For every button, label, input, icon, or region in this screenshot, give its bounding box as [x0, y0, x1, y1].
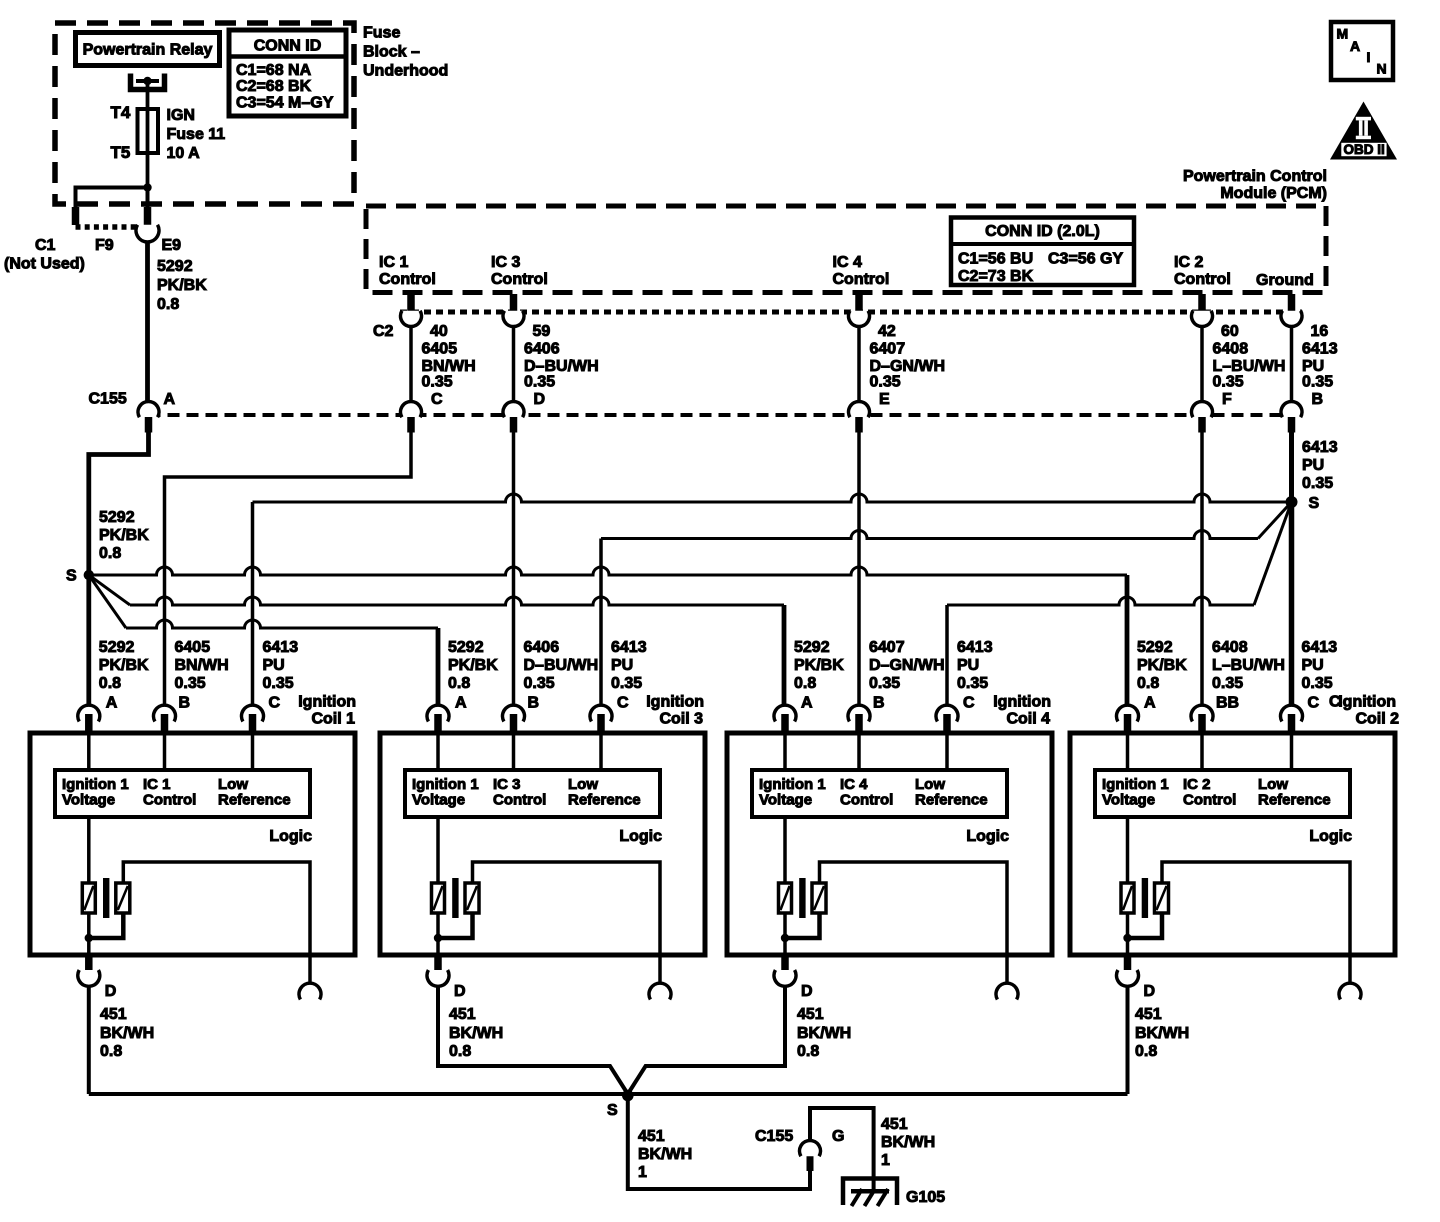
coil4 pin B male bar	[855, 714, 863, 735]
svg-text:D: D	[454, 983, 466, 1000]
svg-text:(Not Used): (Not Used)	[4, 256, 85, 273]
svg-text:451: 451	[638, 1128, 665, 1145]
svg-text:L–BU/WH: L–BU/WH	[1212, 657, 1285, 674]
connector C155 dashed line	[149, 413, 1306, 417]
svg-text:Control: Control	[833, 271, 890, 288]
splice S right diagonal to coil3 C bus	[1258, 502, 1292, 539]
svg-text:IGN: IGN	[167, 107, 195, 124]
wire 451 splice to C155 G	[628, 1096, 810, 1190]
coil4 secondary winding	[812, 883, 826, 913]
svg-text:D: D	[801, 983, 813, 1000]
ground bus 451 horizontal	[89, 1092, 1128, 1096]
svg-text:IC 4: IC 4	[833, 254, 862, 271]
coil1 label Ignition 1 Voltage	[62, 776, 129, 809]
wire 6413 splice to coil2 C	[1289, 502, 1295, 705]
svg-text:Ignition: Ignition	[298, 694, 356, 711]
coil1 pin D male bar	[85, 953, 93, 971]
splice S right dot	[1286, 496, 1298, 508]
svg-text:6413: 6413	[1302, 341, 1338, 358]
svg-text:I: I	[1367, 49, 1371, 65]
coil3 wire voltage to primary	[436, 817, 440, 884]
coil2 internal wire B	[1200, 735, 1204, 770]
svg-text:0.35: 0.35	[1302, 475, 1333, 492]
svg-text:6413: 6413	[611, 639, 647, 656]
wire inside fuse	[146, 110, 150, 188]
ignition coil 4 box	[727, 733, 1052, 955]
svg-text:Low: Low	[218, 776, 248, 793]
svg-text:Coil 4: Coil 4	[1006, 711, 1050, 728]
svg-text:CONN ID (2.0L): CONN ID (2.0L)	[985, 223, 1100, 240]
svg-text:Ignition: Ignition	[993, 694, 1051, 711]
svg-text:0.8: 0.8	[100, 1043, 122, 1060]
svg-text:G: G	[832, 1128, 844, 1145]
svg-text:F9: F9	[95, 237, 114, 254]
svg-text:16: 16	[1311, 323, 1329, 340]
coil1 pin A terminal arc	[78, 705, 100, 721]
coil2 secondary stub terminal arc	[1339, 983, 1361, 999]
svg-text:Coil 1: Coil 1	[311, 711, 355, 728]
C155 terminal arc F	[1192, 401, 1213, 417]
labels pin 42 wire 6407 D&#8211;GN/WH 0.35 pin E	[870, 323, 946, 408]
svg-text:1: 1	[881, 1152, 890, 1169]
coil3 label Ignition 1 Voltage	[412, 776, 479, 809]
C155 terminal arc E	[848, 401, 869, 417]
svg-text:A: A	[801, 695, 813, 712]
svg-text:6405: 6405	[175, 639, 211, 656]
ignition coil 3 box	[380, 733, 705, 955]
ground G105 bracket	[843, 1179, 897, 1206]
coil1 primary slash	[84, 886, 93, 910]
coil3 label Low Reference	[568, 776, 641, 809]
coil4 internal wire B	[857, 735, 861, 770]
svg-text:B: B	[1312, 391, 1324, 408]
C2 terminal arc IC3	[503, 311, 524, 327]
svg-text:5292: 5292	[794, 639, 830, 656]
svg-text:0.8: 0.8	[1135, 1043, 1157, 1060]
relay contact crossbar	[136, 79, 159, 83]
C155 male bar F	[1198, 417, 1206, 433]
label 451 BK/WH 1 (left)	[638, 1128, 692, 1181]
C155 male bar D	[510, 417, 518, 433]
coil4 wire primary to junction	[783, 913, 787, 938]
svg-text:PU: PU	[1302, 457, 1324, 474]
svg-text:BK/WH: BK/WH	[449, 1025, 503, 1042]
svg-text:A: A	[1350, 38, 1360, 54]
labels pin 16 wire 6413 PU 0.35 pin B	[1302, 323, 1338, 408]
svg-text:0.8: 0.8	[794, 675, 816, 692]
svg-text:Ignition: Ignition	[1338, 694, 1396, 711]
wire 6408 straight (C155 F to coil2 BB)	[1200, 433, 1204, 706]
svg-text:Reference: Reference	[218, 792, 291, 809]
splice S left dot	[84, 570, 94, 580]
svg-text:BB: BB	[1216, 695, 1239, 712]
svg-text:Control: Control	[143, 792, 196, 809]
label IC 2 Control	[1174, 254, 1231, 288]
ignition coil 1 box	[30, 733, 355, 955]
terminal arc E9	[136, 225, 159, 242]
coil4 label Low Reference	[915, 776, 988, 809]
svg-text:BK/WH: BK/WH	[1135, 1025, 1189, 1042]
svg-text:0.35: 0.35	[175, 675, 206, 692]
wire 5292 splice to coil1 A	[86, 575, 91, 705]
connector C1 dotted line	[76, 224, 141, 230]
svg-text:S: S	[1309, 495, 1320, 512]
splice S bottom dot	[622, 1090, 634, 1102]
svg-text:Module (PCM): Module (PCM)	[1220, 185, 1327, 202]
svg-text:Control: Control	[840, 792, 893, 809]
wire 451 coil2 D down	[1126, 986, 1130, 1095]
labels 6413 PU 0.35 pin C (coil at 1127)	[1302, 639, 1338, 712]
coil4 junction dot	[781, 934, 789, 942]
coil2 label Ignition 1 Voltage	[1102, 776, 1169, 809]
svg-text:0.35: 0.35	[1212, 675, 1243, 692]
OBD II label box	[1341, 143, 1386, 156]
svg-text:Control: Control	[493, 792, 546, 809]
coil4 label IC 4 Control	[840, 776, 893, 809]
labels pin 40 wire 6405 BN/WH 0.35 pin C	[422, 323, 476, 408]
coil3 junction dot	[434, 934, 442, 942]
svg-text:PK/BK: PK/BK	[99, 657, 149, 674]
wire relay to fuse	[146, 81, 150, 110]
svg-text:C: C	[963, 695, 975, 712]
svg-text:Reference: Reference	[1258, 792, 1331, 809]
C155 male bar E	[855, 417, 863, 433]
coil1 wire primary to junction	[87, 913, 91, 938]
title Ignition Coil 3	[646, 694, 704, 728]
C155 terminal arc C	[401, 401, 422, 417]
wire right branch down	[146, 188, 150, 209]
coil4 secondary stub terminal arc	[996, 983, 1018, 999]
svg-text:PU: PU	[263, 657, 285, 674]
coil1 pin C male bar	[249, 714, 257, 735]
svg-text:A: A	[164, 391, 176, 408]
coil2 pin A terminal arc	[1117, 705, 1139, 721]
svg-text:D–BU/WH: D–BU/WH	[524, 358, 599, 375]
svg-text:D–GN/WH: D–GN/WH	[870, 358, 946, 375]
svg-text:C2=73 BK: C2=73 BK	[958, 268, 1034, 285]
coil3 pin D male bar	[434, 953, 442, 971]
coil2 wire primary to junction	[1126, 913, 1130, 938]
svg-text:59: 59	[533, 323, 551, 340]
svg-text:C155: C155	[755, 1128, 793, 1145]
label 451 BK/WH 0.8 (coil4)	[797, 1006, 851, 1060]
coil2 wire voltage to primary	[1126, 817, 1130, 884]
svg-text:C1=56 BU: C1=56 BU	[958, 251, 1033, 268]
svg-text:Logic: Logic	[619, 828, 662, 845]
svg-text:Control: Control	[1183, 792, 1236, 809]
svg-text:451: 451	[797, 1006, 824, 1023]
svg-text:BK/WH: BK/WH	[881, 1134, 935, 1151]
PCM pin bar IC2	[1198, 294, 1206, 311]
svg-text:D–GN/WH: D–GN/WH	[869, 657, 945, 674]
svg-text:6413: 6413	[263, 639, 299, 656]
splice S right diagonal to coil4 C bus	[1254, 502, 1292, 605]
coil1 wire junction to pin D	[87, 938, 91, 954]
svg-text:6406: 6406	[524, 639, 560, 656]
svg-text:Logic: Logic	[966, 828, 1009, 845]
svg-text:C155: C155	[89, 391, 127, 408]
svg-text:0.8: 0.8	[99, 675, 121, 692]
svg-text:C1=68 NA: C1=68 NA	[236, 62, 312, 79]
coil3 primary slash	[434, 886, 443, 910]
wire 6413 bus to coil4 C	[945, 605, 949, 705]
svg-text:C: C	[617, 695, 629, 712]
svg-text:BN/WH: BN/WH	[422, 358, 476, 375]
ground G105 hatch 1	[852, 1189, 863, 1206]
coil2 pin C terminal arc	[1281, 705, 1303, 721]
coil1 pin B terminal arc	[154, 705, 176, 721]
coil1 secondary stub wire	[308, 955, 312, 984]
svg-text:B: B	[873, 695, 885, 712]
svg-text:D: D	[1144, 983, 1156, 1000]
svg-text:0.35: 0.35	[957, 675, 988, 692]
C155 male bar A	[145, 417, 153, 433]
PCM pin bar IC1	[407, 294, 415, 311]
label 5292 PK/BK 0.8 (E9)	[157, 258, 207, 313]
coil4 wire junction to pin D	[783, 938, 787, 954]
title Ignition Coil 4	[993, 694, 1051, 728]
label 451 BK/WH 0.8 (coil3)	[449, 1006, 503, 1060]
coil2 secondary slash	[1157, 886, 1167, 910]
coil2 primary slash	[1123, 886, 1132, 910]
label 6413 PU 0.35 (above right splice)	[1302, 439, 1338, 492]
bus 5292 to coil4 A	[130, 597, 784, 605]
svg-text:PU: PU	[1302, 657, 1324, 674]
coil1 secondary stub terminal arc	[299, 983, 321, 999]
bus 5292 to coil3 A	[126, 620, 438, 628]
svg-text:0.35: 0.35	[870, 374, 901, 391]
svg-text:Powertrain Relay: Powertrain Relay	[83, 42, 213, 59]
coil1 label IC 1 Control	[143, 776, 196, 809]
title Ignition Coil 1	[298, 694, 356, 728]
ground G105 bar	[851, 1189, 889, 1194]
coil3 pin D terminal arc	[427, 970, 449, 986]
coil1 secondary slash	[118, 886, 128, 910]
wire left branch down	[74, 186, 78, 209]
labels 6413 PU 0.35 pin C (coil at 438)	[611, 639, 647, 712]
label 451 BK/WH 0.8 (coil2)	[1135, 1006, 1189, 1060]
labels 6413 PU 0.35 pin C (coil at 88.8)	[263, 639, 299, 712]
coil3 internal wire A	[436, 735, 440, 770]
coil4 terminal function box	[752, 770, 1007, 817]
svg-text:IC 2: IC 2	[1174, 254, 1203, 271]
labels 5292 PK/BK 0.8 pin A (coil at 438)	[448, 639, 498, 712]
svg-text:Low: Low	[568, 776, 598, 793]
coil2 label Low Reference	[1258, 776, 1331, 809]
wire A jog (C155 A to left column)	[89, 433, 149, 576]
svg-text:PU: PU	[1302, 358, 1324, 375]
wire 5292 bus to coil2 A	[1125, 575, 1130, 705]
svg-text:Powertrain Control: Powertrain Control	[1183, 168, 1327, 185]
svg-text:Ignition 1: Ignition 1	[412, 776, 479, 793]
coil2 pin A male bar	[1124, 714, 1132, 735]
coil4 pin D male bar	[781, 953, 789, 971]
title Powertrain Control Module (PCM)	[1183, 168, 1327, 202]
wire 5292 bus to coil3 A	[436, 628, 441, 705]
coil1 core bar	[103, 878, 109, 918]
svg-text:0.35: 0.35	[524, 675, 555, 692]
coil2 wire junction to pin D	[1126, 938, 1130, 954]
coil3 secondary top jog	[473, 862, 661, 953]
connector C2 dotted line	[400, 310, 1302, 315]
svg-text:G105: G105	[906, 1189, 945, 1206]
C155 G terminal arc	[799, 1140, 820, 1156]
fuse IGN Fuse 11 rectangle	[138, 109, 159, 153]
OBD II pillar symbol	[1356, 117, 1371, 139]
svg-text:S: S	[607, 1102, 618, 1119]
coil1 wire voltage to primary	[87, 817, 91, 884]
svg-text:Coil 3: Coil 3	[659, 711, 703, 728]
conn id (2.0L) separator	[951, 242, 1134, 246]
coil3 jog junction to secondary	[438, 913, 473, 938]
conn id table (fuse block) box	[229, 30, 346, 116]
C2 terminal arc IC1	[401, 311, 422, 327]
junction dot in fuse block	[143, 183, 151, 191]
svg-text:5292: 5292	[448, 639, 484, 656]
svg-text:6408: 6408	[1212, 639, 1248, 656]
wire 451 C155 G to ground	[810, 1108, 874, 1191]
svg-text:6406: 6406	[524, 341, 560, 358]
svg-text:Fuse: Fuse	[363, 25, 400, 42]
svg-text:6413: 6413	[1302, 639, 1338, 656]
C155 terminal arc D	[503, 401, 524, 417]
coil1 pin B male bar	[161, 714, 169, 735]
powertrain relay box	[76, 33, 220, 66]
title Fuse Block - Underhood	[363, 25, 448, 80]
svg-text:0.8: 0.8	[157, 296, 179, 313]
coil2 primary winding	[1121, 883, 1134, 913]
svg-text:Low: Low	[1258, 776, 1288, 793]
svg-text:Underhood: Underhood	[363, 63, 448, 80]
coil3 label IC 3 Control	[493, 776, 546, 809]
svg-text:PK/BK: PK/BK	[99, 527, 149, 544]
bus 6413 to coil4 C	[947, 597, 1254, 605]
coil2 pin B terminal arc	[1191, 705, 1213, 721]
PCM dashed box	[366, 206, 1326, 293]
svg-text:Logic: Logic	[1309, 828, 1352, 845]
svg-text:6407: 6407	[869, 639, 905, 656]
coil4 label Ignition 1 Voltage	[759, 776, 826, 809]
coil4 jog junction to secondary	[785, 913, 820, 938]
svg-text:BN/WH: BN/WH	[175, 657, 229, 674]
svg-text:Ignition 1: Ignition 1	[1102, 776, 1169, 793]
svg-text:0.8: 0.8	[99, 545, 121, 562]
svg-text:451: 451	[1135, 1006, 1162, 1023]
coil2 jog junction to secondary	[1128, 913, 1163, 938]
wire IC1 C2 to C155	[409, 325, 413, 403]
svg-text:451: 451	[449, 1006, 476, 1023]
ground G105 hatch 3	[878, 1189, 889, 1206]
coil4 primary slash	[781, 886, 790, 910]
coil3 pin B male bar	[510, 714, 518, 735]
svg-text:451: 451	[100, 1006, 127, 1023]
coil4 secondary top jog	[820, 862, 1008, 953]
svg-text:Voltage: Voltage	[412, 792, 465, 809]
labels 5292 PK/BK 0.8 pin A (coil at 784)	[794, 639, 844, 712]
svg-text:E9: E9	[162, 237, 182, 254]
coil1 internal wire A	[87, 735, 91, 770]
svg-text:A: A	[106, 695, 118, 712]
svg-text:Ground: Ground	[1256, 272, 1314, 289]
label 451 BK/WH 1 (right)	[881, 1116, 935, 1169]
coil2 secondary stub wire	[1348, 955, 1352, 984]
svg-text:6413: 6413	[957, 639, 993, 656]
wire 6413 bus to coil3 C	[599, 539, 603, 706]
svg-text:IC 1: IC 1	[379, 254, 408, 271]
coil4 internal wire A	[783, 735, 787, 770]
coil1 junction dot	[85, 934, 93, 942]
coil1 terminal function box	[55, 770, 310, 817]
coil3 secondary stub terminal arc	[649, 983, 671, 999]
svg-text:CONN ID: CONN ID	[254, 38, 322, 55]
C155 G male bar	[807, 1153, 814, 1171]
label IC 3 Control	[491, 254, 548, 288]
coil2 junction dot	[1123, 934, 1131, 942]
coil3 pin C male bar	[597, 714, 605, 735]
svg-text:0.8: 0.8	[449, 1043, 471, 1060]
coil1 internal wire B	[163, 735, 167, 770]
wire 5292 bus to coil4 A	[782, 605, 787, 705]
coil1 pin A male bar	[85, 714, 93, 735]
svg-text:0.35: 0.35	[1213, 374, 1244, 391]
coil1 pin C terminal arc	[242, 705, 264, 721]
svg-text:C: C	[431, 391, 443, 408]
PCM pin bar IC3	[510, 294, 518, 311]
PCM pin bar IC4	[855, 294, 863, 311]
svg-text:40: 40	[430, 323, 448, 340]
svg-text:6413: 6413	[1302, 439, 1338, 456]
coil2 core bar	[1142, 878, 1148, 918]
svg-text:0.35: 0.35	[869, 675, 900, 692]
svg-text:451: 451	[881, 1116, 908, 1133]
svg-text:C1: C1	[35, 237, 56, 254]
coil4 pin B terminal arc	[848, 705, 870, 721]
svg-text:60: 60	[1221, 323, 1239, 340]
coil2 internal wire A	[1126, 735, 1130, 770]
coil1 secondary top jog	[123, 862, 310, 953]
svg-text:42: 42	[878, 323, 896, 340]
svg-text:C2=68 BK: C2=68 BK	[236, 78, 312, 95]
svg-text:F: F	[1222, 391, 1232, 408]
labels pin 59 wire 6406 D&#8211;BU/WH 0.35 pin D	[524, 323, 599, 408]
C2 terminal arc IC2	[1192, 311, 1213, 327]
svg-text:IC 2: IC 2	[1183, 776, 1211, 793]
svg-text:Voltage: Voltage	[62, 792, 115, 809]
label IGN Fuse 11 10 A	[167, 107, 226, 162]
coil2 label IC 2 Control	[1183, 776, 1236, 809]
fuse block underhood dashed box	[55, 23, 354, 204]
svg-text:L–BU/WH: L–BU/WH	[1213, 358, 1286, 375]
svg-text:BK/WH: BK/WH	[797, 1025, 851, 1042]
coil1 label Low Reference	[218, 776, 291, 809]
coil4 pin D terminal arc	[774, 970, 796, 986]
svg-text:PU: PU	[957, 657, 979, 674]
svg-text:5292: 5292	[99, 509, 135, 526]
svg-text:N: N	[1377, 61, 1387, 77]
svg-text:5292: 5292	[99, 639, 135, 656]
svg-text:Control: Control	[379, 271, 436, 288]
coil2 pin D terminal arc	[1117, 970, 1139, 986]
coil4 secondary slash	[814, 886, 824, 910]
coil3 wire primary to junction	[436, 913, 440, 938]
svg-text:IC 4: IC 4	[840, 776, 868, 793]
labels 5292 PK/BK 0.8 pin A (coil at 88.8)	[99, 639, 149, 712]
title C Ignition Coil 2	[1329, 694, 1399, 728]
svg-text:0.8: 0.8	[1137, 675, 1159, 692]
coil2 terminal function box	[1095, 770, 1350, 817]
coil4 primary winding	[779, 883, 792, 913]
svg-text:C3=54 M–GY: C3=54 M–GY	[236, 95, 334, 112]
